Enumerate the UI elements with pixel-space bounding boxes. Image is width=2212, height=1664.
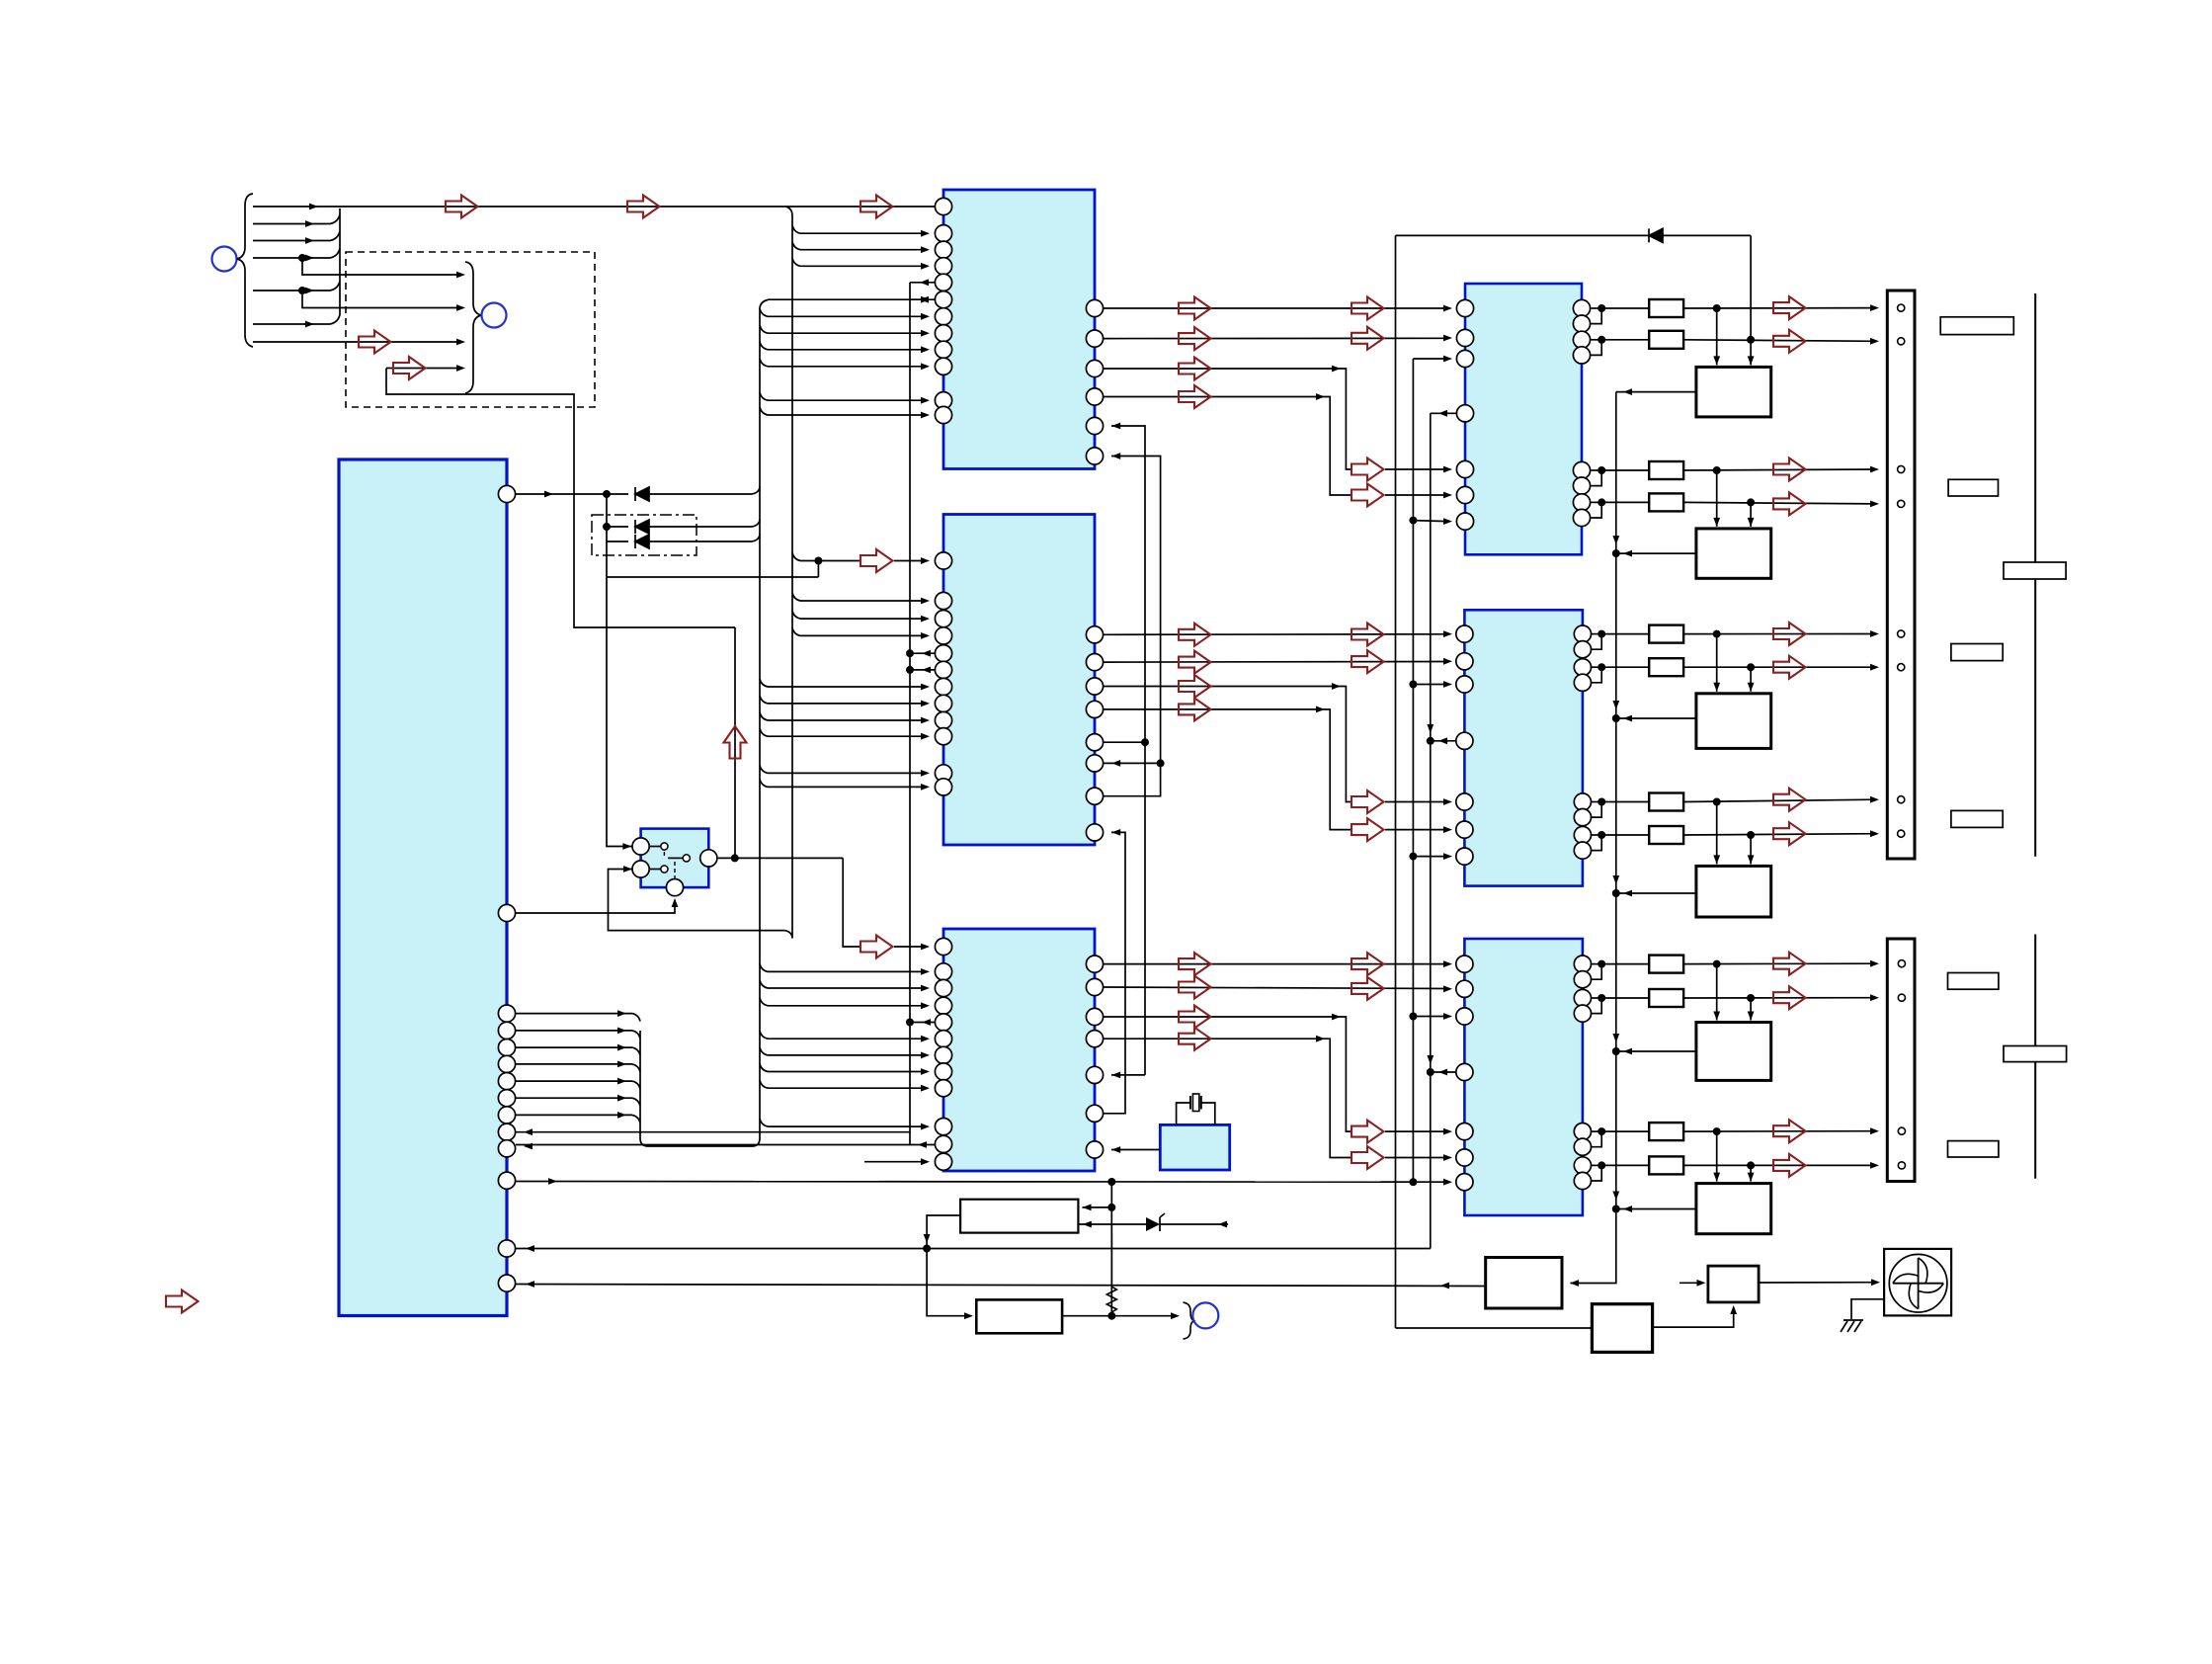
pin IC6 L y692 bbox=[1456, 676, 1473, 693]
analog switch S1 bbox=[641, 829, 709, 888]
arrow IC1 out1 a bbox=[1179, 297, 1211, 320]
wire CH6- to speaker bbox=[1683, 1164, 1875, 1166]
pin IC5 R y508 bbox=[1573, 494, 1590, 511]
wire FANDRV to fan bbox=[1759, 1282, 1876, 1284]
pin IC4 L y1034 bbox=[935, 1014, 951, 1031]
wire CH1+ to speaker bbox=[1683, 307, 1875, 309]
pin IC7 L y1145 bbox=[1456, 1123, 1473, 1140]
wire IC4 L pin1176 bbox=[864, 1161, 926, 1163]
pin IC4 R y1029 bbox=[1086, 1008, 1103, 1025]
wire S1 in2 bbox=[609, 870, 785, 931]
ground chassis bbox=[1841, 1320, 1863, 1332]
pin IC1 L y236 bbox=[935, 225, 951, 242]
wire IC4 in1087 from IC1 net bbox=[1144, 742, 1146, 1075]
diode D-top bbox=[1396, 234, 1650, 236]
wire DET1 to FANDRV bbox=[1653, 1307, 1734, 1327]
wire U101 in y1146 bbox=[516, 1131, 910, 1133]
pin IC5 L y527 bbox=[1456, 513, 1473, 530]
pin U101 y1263 bbox=[498, 1240, 515, 1257]
pin IC4 L y1084 bbox=[935, 1063, 951, 1080]
resistor CH5- bbox=[1601, 997, 1649, 999]
diode D3 bbox=[607, 541, 628, 542]
fan M1 bbox=[1884, 1249, 1951, 1316]
pin IC4 R y1163 bbox=[1086, 1141, 1103, 1158]
filter block F-CH2 bbox=[1716, 470, 1718, 527]
pin IC2 L y745 bbox=[935, 728, 951, 745]
bus B921 to IC4 pin bbox=[906, 1019, 914, 1027]
pin IC1 L y320 bbox=[935, 308, 951, 325]
pin IC6 L y749 bbox=[1456, 732, 1473, 749]
wire IN7 to inner brace bbox=[253, 341, 457, 343]
arrow IC2 out4 b bbox=[1352, 818, 1384, 841]
pin IC4 L y1157 bbox=[935, 1135, 951, 1152]
wire REG1 in1 bbox=[1110, 1182, 1112, 1316]
wire IC1 out2 bbox=[1104, 337, 1448, 339]
bus B802 exits to IC2 bbox=[792, 593, 800, 601]
wire IC2 out3 jog bbox=[1104, 687, 1352, 802]
pin IC4 L y1017 bbox=[935, 997, 951, 1014]
resistor CH1- bbox=[1601, 339, 1649, 341]
wire REG2 in bbox=[927, 1249, 968, 1316]
wire REG2 out to remote jack bbox=[1062, 1315, 1176, 1317]
wire CH4- to speaker bbox=[1683, 834, 1875, 835]
wire IN1 (top line to IC1 pin1) bbox=[253, 206, 935, 208]
pin IC4 L y1175 bbox=[935, 1153, 951, 1170]
resistor CH2- bbox=[1601, 501, 1649, 503]
pin IC4 R y1126 bbox=[1086, 1105, 1103, 1122]
pin IC6 L y866 bbox=[1456, 848, 1473, 865]
pin IC2 L y626 bbox=[935, 611, 951, 627]
arrow CH6+ bbox=[1773, 1120, 1806, 1142]
pin IC7 R y1025 bbox=[1574, 1005, 1591, 1022]
wire IC1 out1 bbox=[1104, 307, 1448, 309]
pin IC7 R y991 bbox=[1574, 971, 1591, 988]
pin IC5 L y418 bbox=[1456, 405, 1473, 422]
pin IC4 L y1000 bbox=[935, 979, 951, 996]
wire CH5- to speaker bbox=[1683, 997, 1875, 999]
pin IC7 L y1171 bbox=[1456, 1149, 1473, 1166]
pin IC2 R y805 bbox=[1086, 788, 1103, 804]
wire IC1 out3 jog bbox=[1104, 369, 1352, 469]
arrow CH3- bbox=[1773, 656, 1806, 679]
pin IC1 R y342 bbox=[1086, 330, 1103, 347]
wire IC2 in772 branch bbox=[1104, 762, 1161, 764]
arrow IC1 out1 b bbox=[1352, 297, 1384, 320]
wire CH5+ to speaker bbox=[1683, 962, 1875, 964]
wire IC2 out2 bbox=[1104, 661, 1448, 664]
wire F-CH6 sense bbox=[1616, 1208, 1696, 1210]
hole CN-SP-A y311 bbox=[1898, 304, 1905, 311]
wire F-CH3 sense bbox=[1616, 717, 1696, 719]
pin IC2 R y694 bbox=[1086, 678, 1103, 695]
wire CH6+ pair tie bbox=[1592, 1130, 1602, 1132]
pin U101 y1145 bbox=[498, 1123, 515, 1140]
pin IC1 R y373 bbox=[1086, 360, 1103, 376]
pin IC2 L y661 bbox=[935, 645, 951, 662]
arrow IC1 out3 bbox=[1179, 358, 1211, 380]
arrow up standby bbox=[724, 726, 747, 759]
bus B921 vertical bbox=[909, 283, 911, 1144]
arrow IC4 out3 b bbox=[1352, 1121, 1384, 1143]
wire U101 mute out bbox=[516, 493, 628, 495]
pin IC6 R y845 bbox=[1574, 826, 1591, 843]
pin IC6 R y860 bbox=[1574, 842, 1591, 859]
resistor CH6+ bbox=[1601, 1130, 1649, 1132]
label plate SP1 bbox=[1940, 317, 2013, 335]
pin IC5 L y312 bbox=[1456, 299, 1473, 316]
wire B921 bottom to U101 and IC4 bbox=[516, 1144, 935, 1146]
connector remote-out blue circle bbox=[1192, 1302, 1218, 1328]
pin IC1 L y420 bbox=[935, 406, 951, 423]
pin IC1 L y303 bbox=[935, 291, 951, 308]
arrow IN1 c bbox=[860, 196, 893, 218]
arrow IC2 top in bbox=[860, 549, 893, 572]
arrow CH1+ bbox=[1773, 296, 1806, 319]
resistor CH1+ bbox=[1601, 307, 1649, 309]
pin IC6 R y811 bbox=[1574, 793, 1591, 810]
hole CN-SP-B y975 bbox=[1898, 960, 1905, 967]
pin IC4 L y1140 bbox=[935, 1119, 951, 1135]
pin IC1 L y209 bbox=[935, 198, 951, 214]
wire CH5- pair tie bbox=[1592, 997, 1602, 999]
wire net V1412 with diode loop bbox=[1395, 235, 1397, 1328]
wire FANDRV in stub bbox=[1679, 1282, 1703, 1284]
pin IC5 R y359 bbox=[1573, 347, 1590, 364]
pin IC7 L y1000 bbox=[1456, 980, 1473, 997]
pin IC2 R y772 bbox=[1086, 755, 1103, 772]
arrow IC2 out4 a bbox=[1179, 698, 1211, 720]
wire IN2 bbox=[253, 223, 330, 225]
wire IN5 branch to inner brace bbox=[302, 291, 457, 308]
IC7 power amp bbox=[1464, 939, 1583, 1215]
pin IC7 R y1195 bbox=[1574, 1172, 1591, 1189]
crystal X1 bbox=[1177, 1103, 1190, 1124]
wire IC1 in431 from IC2 bbox=[1104, 426, 1145, 742]
arrow IC1 out4 b bbox=[1352, 484, 1384, 507]
arrow IC4 out4 a bbox=[1179, 1028, 1211, 1050]
bus B921 from IC1 outs bbox=[910, 282, 935, 284]
bus B802 vertical bbox=[785, 207, 792, 937]
filter block F-CH4 bbox=[1716, 802, 1718, 865]
pin IC4 L y1101 bbox=[935, 1080, 951, 1097]
wire F-CH4 sense bbox=[1616, 892, 1696, 894]
pin IC6 R y641 bbox=[1574, 625, 1591, 642]
wire CH4+ to speaker bbox=[1683, 799, 1875, 801]
arrow CH3+ bbox=[1773, 623, 1806, 645]
pin IC6 L y641 bbox=[1456, 625, 1473, 642]
arrow IC4 out2 b bbox=[1352, 977, 1384, 1000]
resistor CH2+ bbox=[1601, 469, 1649, 471]
arrow IC4 out1 b bbox=[1352, 953, 1384, 975]
pin IC1 L y337 bbox=[935, 325, 951, 342]
IC1 DSP block bbox=[943, 190, 1095, 469]
arrow IC4 out4 b bbox=[1352, 1146, 1384, 1169]
wire net RST long line y1300 bbox=[516, 1285, 1486, 1287]
pin IC2 R y670 bbox=[1086, 654, 1103, 671]
IC4 DSP block bbox=[943, 929, 1095, 1171]
wire IC4 out2 bbox=[1104, 987, 1448, 989]
pin IC6 L y811 bbox=[1456, 793, 1473, 810]
pin IC2 L y643 bbox=[935, 627, 951, 644]
wire osc to IC4 bbox=[1111, 1149, 1160, 1151]
pin IC2 R y842 bbox=[1086, 824, 1103, 841]
connector remote blue circle bbox=[482, 303, 507, 328]
wires IC2 L pins 782/796 from bus bbox=[760, 765, 768, 773]
wire IC4 out1 bbox=[1104, 963, 1448, 965]
pin IC2 R y717 bbox=[1086, 701, 1103, 717]
wire diode chain vertical bbox=[606, 494, 608, 577]
pin IC1 R y461 bbox=[1086, 448, 1103, 464]
arrow CH4+ bbox=[1773, 789, 1806, 811]
pin IC7 R y1145 bbox=[1574, 1123, 1591, 1140]
filter block F-CH3 bbox=[1716, 634, 1718, 692]
wire IC4 out3 jog bbox=[1104, 1017, 1352, 1131]
connector CN-SP-B bbox=[1887, 939, 1915, 1182]
pin IC7 L y975 bbox=[1456, 956, 1473, 972]
wire CH2+ pair tie bbox=[1592, 469, 1602, 471]
pin IC6 L y669 bbox=[1456, 653, 1473, 670]
wire F-CH2 sense bbox=[1616, 552, 1696, 554]
IC2 DSP block bbox=[943, 515, 1095, 846]
diode D2 bbox=[607, 526, 628, 528]
hole CN-SP-A y475 bbox=[1898, 465, 1905, 472]
label plate SP6 bbox=[1948, 1141, 1999, 1157]
pin IC5 R y327 bbox=[1573, 315, 1590, 332]
arrow IC4 out3 a bbox=[1179, 1006, 1211, 1029]
pin IC5 R y524 bbox=[1573, 509, 1590, 526]
pin IC5 L y501 bbox=[1456, 486, 1473, 503]
arrow IC1 out3 b bbox=[1352, 458, 1384, 481]
pin U101 y1111 bbox=[498, 1090, 515, 1107]
arrow IC1 out4 bbox=[1179, 385, 1211, 408]
bus B769 exits to IC2 bbox=[760, 679, 768, 687]
resistor CH6- bbox=[1601, 1164, 1649, 1166]
pin IC2 R y751 bbox=[1086, 734, 1103, 751]
wire standby vertical with up arrow bbox=[734, 627, 736, 858]
bus merge vertical left bbox=[339, 208, 341, 315]
arrow IN1 b bbox=[627, 196, 660, 218]
pin IC7 L y1085 bbox=[1456, 1063, 1473, 1080]
wire IC2 in842 from IC4 bbox=[1104, 832, 1125, 1113]
pin U101 y1060 bbox=[498, 1040, 515, 1056]
pin IC1 R y312 bbox=[1086, 299, 1103, 316]
diode D1 bbox=[635, 487, 649, 501]
resistor CH4- bbox=[1601, 834, 1649, 836]
IC5 power amp bbox=[1465, 284, 1582, 554]
pin IC1 L y252 bbox=[935, 241, 951, 258]
arrow IC4 out2 a bbox=[1179, 976, 1211, 999]
wire IN4 branch to inner brace bbox=[302, 258, 457, 275]
hole CN-SP-A y641 bbox=[1898, 630, 1905, 637]
pin IC4 R y1051 bbox=[1086, 1031, 1103, 1047]
pin IC7 L y1196 bbox=[1456, 1174, 1473, 1191]
hole CN-SP-A y509 bbox=[1898, 500, 1905, 507]
wire IN6 bbox=[253, 323, 330, 325]
wire CH1- to speaker bbox=[1683, 340, 1875, 342]
pin IC6 L y839 bbox=[1456, 821, 1473, 838]
wire F-CH5 sense bbox=[1616, 1050, 1696, 1052]
wire F-CH1 sense bbox=[1616, 391, 1696, 393]
pin IC2 L y796 bbox=[935, 779, 951, 795]
bus B769 U-turn to B648 bbox=[640, 1031, 760, 1146]
IC6 power amp bbox=[1464, 610, 1583, 885]
resistor CH5+ bbox=[1601, 963, 1649, 965]
pin IC1 L y353 bbox=[935, 341, 951, 358]
pin IC4 L y983 bbox=[935, 963, 951, 980]
pin S1 in1 bbox=[632, 838, 649, 855]
block DET1 bbox=[1592, 1304, 1652, 1353]
pin U101 y500 bbox=[498, 485, 515, 502]
wire V1412 to DET1 bbox=[1396, 1327, 1593, 1329]
label plate SP2 bbox=[1948, 479, 1998, 496]
arrow CH2- bbox=[1773, 492, 1806, 515]
hole CN-SP-B y1179 bbox=[1898, 1162, 1905, 1169]
resistor CH3- bbox=[1601, 666, 1649, 668]
arrow IC2 out2 b bbox=[1352, 650, 1384, 673]
hole CN-SP-A y345 bbox=[1898, 338, 1905, 345]
pin U101 y1025 bbox=[498, 1005, 515, 1022]
arrow IC2 out3 b bbox=[1352, 790, 1384, 813]
arrow CH2+ bbox=[1773, 458, 1806, 481]
wire S1 out to IC4 bbox=[717, 857, 843, 859]
arrow CH5- bbox=[1773, 986, 1806, 1009]
pin IC2 L y711 bbox=[935, 695, 951, 711]
arrow CH1- bbox=[1773, 330, 1806, 353]
bus B648 entries from U101 bbox=[516, 1013, 632, 1015]
wire V1772 top bbox=[1750, 235, 1752, 339]
pin IC2 L y608 bbox=[935, 592, 951, 609]
resistor CH4+ bbox=[1601, 801, 1649, 803]
brace inner group bbox=[465, 262, 481, 393]
pin U101 y1298 bbox=[498, 1275, 515, 1291]
pin IC2 L y677 bbox=[935, 661, 951, 678]
wire IN4 bbox=[253, 257, 330, 259]
hole CN-SP-A y809 bbox=[1898, 796, 1905, 803]
hole CN-SP-B y1144 bbox=[1898, 1127, 1905, 1134]
arrow legend bbox=[166, 1290, 199, 1313]
wire IN3 bbox=[253, 240, 330, 242]
wire IC2 out4 jog bbox=[1104, 709, 1352, 830]
wire REG1 in2 zener bbox=[1078, 1223, 1146, 1225]
filter block F-CH1 bbox=[1716, 308, 1718, 365]
wire CH2+ to speaker bbox=[1683, 469, 1875, 470]
filter block F-CH5 bbox=[1716, 964, 1718, 1021]
bus B769 exits to IC1 bbox=[760, 308, 768, 316]
wire CH4+ pair tie bbox=[1592, 801, 1602, 803]
pin IC4 L y1067 bbox=[935, 1046, 951, 1063]
pin U101 y1042 bbox=[498, 1022, 515, 1039]
hole CN-SP-A y675 bbox=[1898, 664, 1905, 671]
wire CH3+ pair tie bbox=[1592, 633, 1602, 635]
wire IN5 bbox=[253, 290, 330, 291]
wire IC1 in461 from IC2 bbox=[1104, 457, 1161, 796]
pin IC4 L y958 bbox=[935, 938, 951, 955]
zener ZD1 bbox=[1146, 1217, 1160, 1231]
label plate SP4 bbox=[1951, 810, 2003, 827]
pin IC1 L y370 bbox=[935, 358, 951, 374]
dash-dot box diode pair bbox=[592, 515, 696, 555]
arrow IN7 bbox=[359, 331, 391, 354]
pin IC2 L y695 bbox=[935, 678, 951, 695]
wire to bus and mux bbox=[607, 576, 818, 578]
pin IC1 R y431 bbox=[1086, 417, 1103, 434]
wire CH6- pair tie bbox=[1592, 1164, 1602, 1166]
pin IC5 L y342 bbox=[1456, 329, 1473, 346]
wire CH3- to speaker bbox=[1683, 666, 1875, 668]
regulator REG2 bbox=[976, 1299, 1062, 1333]
pin IC7 R y1010 bbox=[1574, 989, 1591, 1006]
pin IC6 R y690 bbox=[1574, 674, 1591, 691]
arrow IN1 a bbox=[446, 196, 478, 218]
pin IC1 R y401 bbox=[1086, 388, 1103, 405]
wire IC4 out4 jog bbox=[1104, 1039, 1352, 1157]
speaker bus bar A bbox=[2034, 293, 2036, 857]
wire CH6+ to speaker bbox=[1683, 1130, 1875, 1132]
pin IC5 R y312 bbox=[1573, 299, 1590, 316]
pin IC5 R y343 bbox=[1573, 331, 1590, 348]
connector CN-in blue circle bbox=[212, 247, 237, 272]
brace remote out bbox=[1184, 1302, 1194, 1339]
pin IC5 R y476 bbox=[1573, 461, 1590, 478]
arrow CH4- bbox=[1773, 822, 1806, 845]
label plate SP3 bbox=[1951, 644, 2003, 661]
wire IN8 loop bbox=[386, 369, 735, 628]
wire CH3- pair tie bbox=[1592, 666, 1602, 668]
wire net SDA long line y1196 bbox=[516, 1181, 1448, 1184]
wire net V1430 mute bbox=[1412, 359, 1414, 1182]
resistor CH3+ bbox=[1601, 633, 1649, 635]
wire REG1 out bbox=[927, 1215, 960, 1249]
pin U101 y1162 bbox=[498, 1140, 515, 1157]
pin IC7 R y975 bbox=[1574, 956, 1591, 972]
wire CH1+ pair tie bbox=[1592, 307, 1602, 309]
pin IC1 L y269 bbox=[935, 258, 951, 275]
speaker bar plate B bbox=[2004, 1046, 2067, 1062]
bus B802 exit to IC2 top bbox=[792, 553, 800, 561]
pin IC6 R y827 bbox=[1574, 809, 1591, 826]
pin IC2 L y729 bbox=[935, 711, 951, 728]
arrow CH5+ bbox=[1773, 953, 1806, 975]
pin U101 y1076 bbox=[498, 1055, 515, 1072]
pin S1 out bbox=[700, 850, 717, 867]
wire IC1 out4 jog bbox=[1104, 397, 1352, 496]
wire net V1448 protection bbox=[1430, 413, 1432, 1248]
wire fan ground bbox=[1851, 1299, 1884, 1319]
connector CN-SP-A bbox=[1887, 291, 1915, 859]
arrow IC1 out2 b bbox=[1352, 327, 1384, 350]
arrow IC2 out3 a bbox=[1179, 675, 1211, 698]
pin IC2 L y567 bbox=[935, 552, 951, 569]
bus B769 vertical bbox=[759, 308, 761, 1139]
hole CN-SP-B y1009 bbox=[1898, 994, 1905, 1001]
block FANDRV bbox=[1708, 1266, 1759, 1302]
resistor R-th vertical bbox=[1106, 1233, 1116, 1316]
label plate SP5 bbox=[1948, 973, 1999, 990]
wire CH2- pair tie bbox=[1592, 501, 1602, 503]
dashed box remote group bbox=[346, 252, 595, 407]
pin U101 y1094 bbox=[498, 1073, 515, 1090]
pin S1 ctl bbox=[666, 879, 683, 896]
wire net SCL long line y1263 bbox=[516, 1248, 1431, 1250]
wire net V1635 feedback bbox=[1571, 392, 1616, 1284]
wire IC2 out1 bbox=[1104, 633, 1448, 636]
pin IC5 R y491 bbox=[1573, 477, 1590, 494]
wire CH1- pair tie bbox=[1592, 339, 1602, 341]
arrow IC2 out1 a bbox=[1179, 624, 1211, 646]
pin IC2 R y642 bbox=[1086, 626, 1103, 643]
block PROT1 bbox=[1486, 1258, 1562, 1309]
pin IC1 L y285 bbox=[935, 274, 951, 291]
